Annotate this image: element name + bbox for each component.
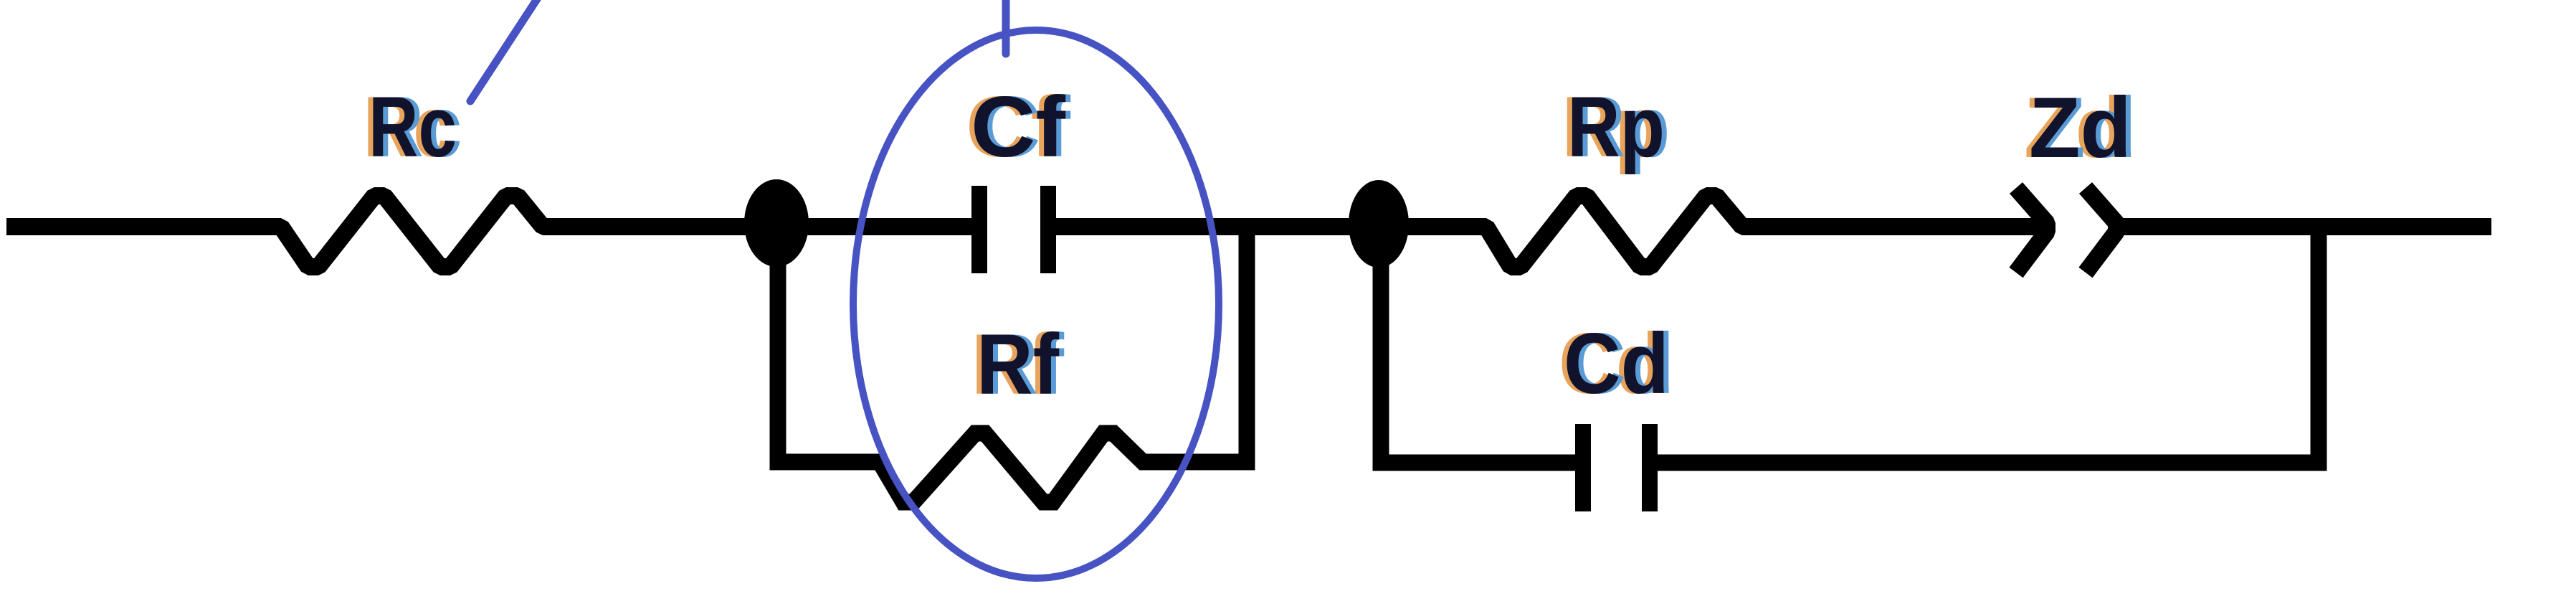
label Cf <box>966 79 1071 175</box>
label Cd <box>1559 316 1674 412</box>
Warburg element Zd chevron 2 <box>2086 188 2116 273</box>
annotation line to ellipse (blue pointer) <box>1002 0 1010 54</box>
wire loop1: node A stem, bottom branch with resistor Rf, right vertical <box>778 219 1247 502</box>
Warburg element Zd chevron 1 <box>2016 188 2047 273</box>
label Zd <box>2024 80 2137 176</box>
capacitor Cd right plate <box>1642 424 1658 511</box>
highlight ellipse around Cf/Rf <box>853 30 1219 578</box>
wire Cf to node B with resistor Rp <box>1053 196 2047 267</box>
svg-text:Rc: Rc <box>369 79 457 175</box>
svg-text:Cd: Cd <box>1564 316 1669 412</box>
wire Zd to right lead <box>2122 218 2491 235</box>
annotation line to Rc (blue pointer) <box>470 0 543 101</box>
wire loop2 left: node B stem and bottom branch to Cd <box>1381 219 1577 463</box>
node B junction dot <box>1349 180 1409 268</box>
wire loop2 right: bottom branch from Cd and right vertical up <box>1656 227 2319 463</box>
capacitor Cf right plate <box>1040 186 1056 273</box>
svg-text:Cf: Cf <box>971 79 1066 175</box>
capacitor Cd left plate <box>1575 424 1591 511</box>
capacitor Cf left plate <box>971 186 987 273</box>
node A junction dot <box>744 179 809 267</box>
label Rc <box>363 79 462 175</box>
label Rp <box>1562 79 1670 175</box>
svg-text:Rp: Rp <box>1567 79 1665 175</box>
label Rf <box>971 316 1065 412</box>
svg-text:Rf: Rf <box>976 316 1060 412</box>
svg-text:Zd: Zd <box>2029 80 2131 176</box>
wire left lead with resistor Rc <box>6 196 973 267</box>
